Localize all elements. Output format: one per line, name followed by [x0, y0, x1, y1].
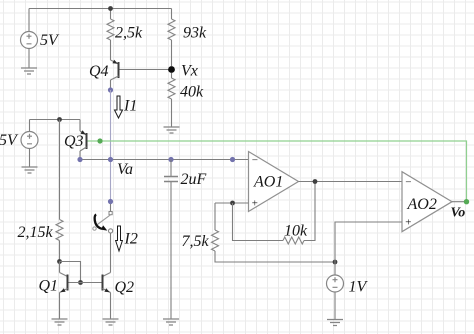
resistor R 40k: [168, 78, 175, 99]
wire 93k bottom to Vx: [171, 40, 173, 66]
ground (1V): [327, 320, 343, 326]
node dot 1V tee: [333, 260, 338, 265]
svg-text:−: −: [405, 177, 412, 189]
wire 40k to ground: [171, 99, 173, 127]
wire green feedback net: [88, 141, 467, 202]
switch wire top: [110, 202, 112, 212]
node dot AO1 output: [313, 179, 318, 184]
voltage source V3 1V: [327, 275, 344, 292]
svg-text:2,15k: 2,15k: [18, 224, 54, 241]
svg-text:2uF: 2uF: [181, 171, 207, 188]
wire AO1 output: [299, 181, 403, 183]
svg-text:Vo: Vo: [451, 206, 466, 221]
wire 10k feedback right: [304, 182, 315, 241]
wire 1V top: [334, 262, 336, 275]
wire AO2 plus input: [335, 222, 402, 262]
wire Q4 base to Vx: [120, 69, 172, 71]
wire Vx to 40k: [171, 73, 173, 78]
ground (40k): [164, 127, 180, 133]
svg-text:Va: Va: [117, 161, 133, 178]
ground (V1): [21, 68, 37, 74]
wire 2,5k bottom to Q4 emitter: [110, 40, 112, 60]
wire top rail: [29, 8, 172, 10]
node dot switch top: [108, 199, 113, 204]
svg-text:2,5k: 2,5k: [115, 25, 143, 42]
wire 1V bottom: [334, 292, 336, 320]
node Vx dot: [168, 66, 175, 73]
wire shared base: [69, 282, 102, 284]
svg-text:+: +: [405, 216, 412, 228]
svg-text:−: −: [251, 155, 258, 167]
switch S1: [93, 212, 113, 233]
node dot Va right: [230, 157, 235, 162]
svg-text:Q3: Q3: [64, 133, 84, 150]
resistor R 93k: [168, 19, 175, 40]
ground (Q2): [103, 319, 119, 325]
node dot rail branch: [57, 117, 62, 122]
wire vertical net Va (slate): [110, 90, 112, 202]
resistor R 7,5k: [212, 230, 219, 251]
current arrow I2: [116, 226, 123, 251]
wire V2 top: [29, 120, 31, 132]
node green dot Vo: [464, 199, 469, 204]
ground (cap): [163, 319, 179, 325]
wire 2,5k top lead: [110, 9, 112, 20]
wire mirror tee to bases: [60, 262, 81, 283]
resistor R 2,5k: [107, 19, 114, 40]
svg-text:10k: 10k: [284, 223, 308, 240]
svg-text:Q4: Q4: [89, 63, 109, 80]
svg-text:AO1: AO1: [253, 174, 283, 191]
wire 10k feedback left: [233, 203, 284, 241]
wire V2 bottom: [29, 149, 31, 168]
wire AO2 output: [452, 201, 467, 203]
wire V1 bottom: [28, 49, 30, 69]
wire V1 top: [28, 9, 30, 32]
wire 2,15k branch top: [59, 120, 61, 220]
svg-text:+: +: [251, 198, 258, 210]
node green dot: [97, 138, 102, 143]
wire cap top: [170, 160, 172, 177]
node dot Va mid: [108, 157, 113, 162]
wire node Va horizontal: [80, 159, 249, 161]
wire V2 rail to Q3: [30, 119, 81, 121]
svg-text:I2: I2: [124, 231, 138, 248]
svg-text:5V: 5V: [40, 32, 60, 49]
transistor Q1 (NPN): [60, 262, 68, 320]
wire 2,15k bottom: [59, 241, 61, 273]
current arrow I1: [115, 96, 123, 118]
transistor Q4 (PNP): [111, 60, 119, 80]
svg-text:5V: 5V: [0, 132, 19, 149]
capacitor C 2uF: [164, 177, 178, 182]
svg-text:40k: 40k: [180, 84, 204, 101]
transistor Q3 (PNP): [80, 120, 87, 160]
node dot cap branch: [168, 157, 173, 162]
svg-text:I1: I1: [123, 98, 137, 115]
node dot mirror tee: [57, 259, 62, 264]
switch action arrow: [95, 215, 108, 231]
node dot AO1 plus: [230, 201, 235, 206]
op-amp AO2: [402, 172, 452, 232]
wire 93k top lead: [171, 9, 173, 20]
wire 7,5k top: [214, 203, 216, 230]
node junction dot top rail: [108, 6, 113, 11]
node dot Va left: [77, 157, 82, 162]
ground (V2): [22, 167, 38, 173]
ground (Q1): [52, 319, 68, 325]
transistor Q2 (NPN): [103, 273, 111, 320]
wire AO1 plus input: [215, 202, 249, 204]
svg-text:Vx: Vx: [181, 63, 198, 80]
wire 7,5k bottom: [215, 251, 335, 262]
node dot base tee: [78, 280, 83, 285]
svg-text:1V: 1V: [349, 279, 369, 296]
svg-text:Q2: Q2: [115, 279, 135, 296]
op-amp AO1: [249, 152, 299, 212]
wire switch bottom to Q2: [110, 233, 112, 273]
svg-text:Q1: Q1: [39, 278, 59, 295]
voltage source V2 5V: [21, 132, 38, 149]
wire cap bottom: [170, 182, 172, 319]
resistor R 2,15k: [56, 220, 63, 241]
wire Q4 collector: [110, 80, 112, 90]
svg-text:AO2: AO2: [407, 196, 437, 213]
voltage source V1 5V: [21, 32, 38, 49]
svg-text:7,5k: 7,5k: [182, 233, 210, 250]
node dot Q4 collector: [108, 87, 113, 92]
resistor R 10k: [283, 237, 304, 244]
svg-text:93k: 93k: [183, 25, 207, 42]
